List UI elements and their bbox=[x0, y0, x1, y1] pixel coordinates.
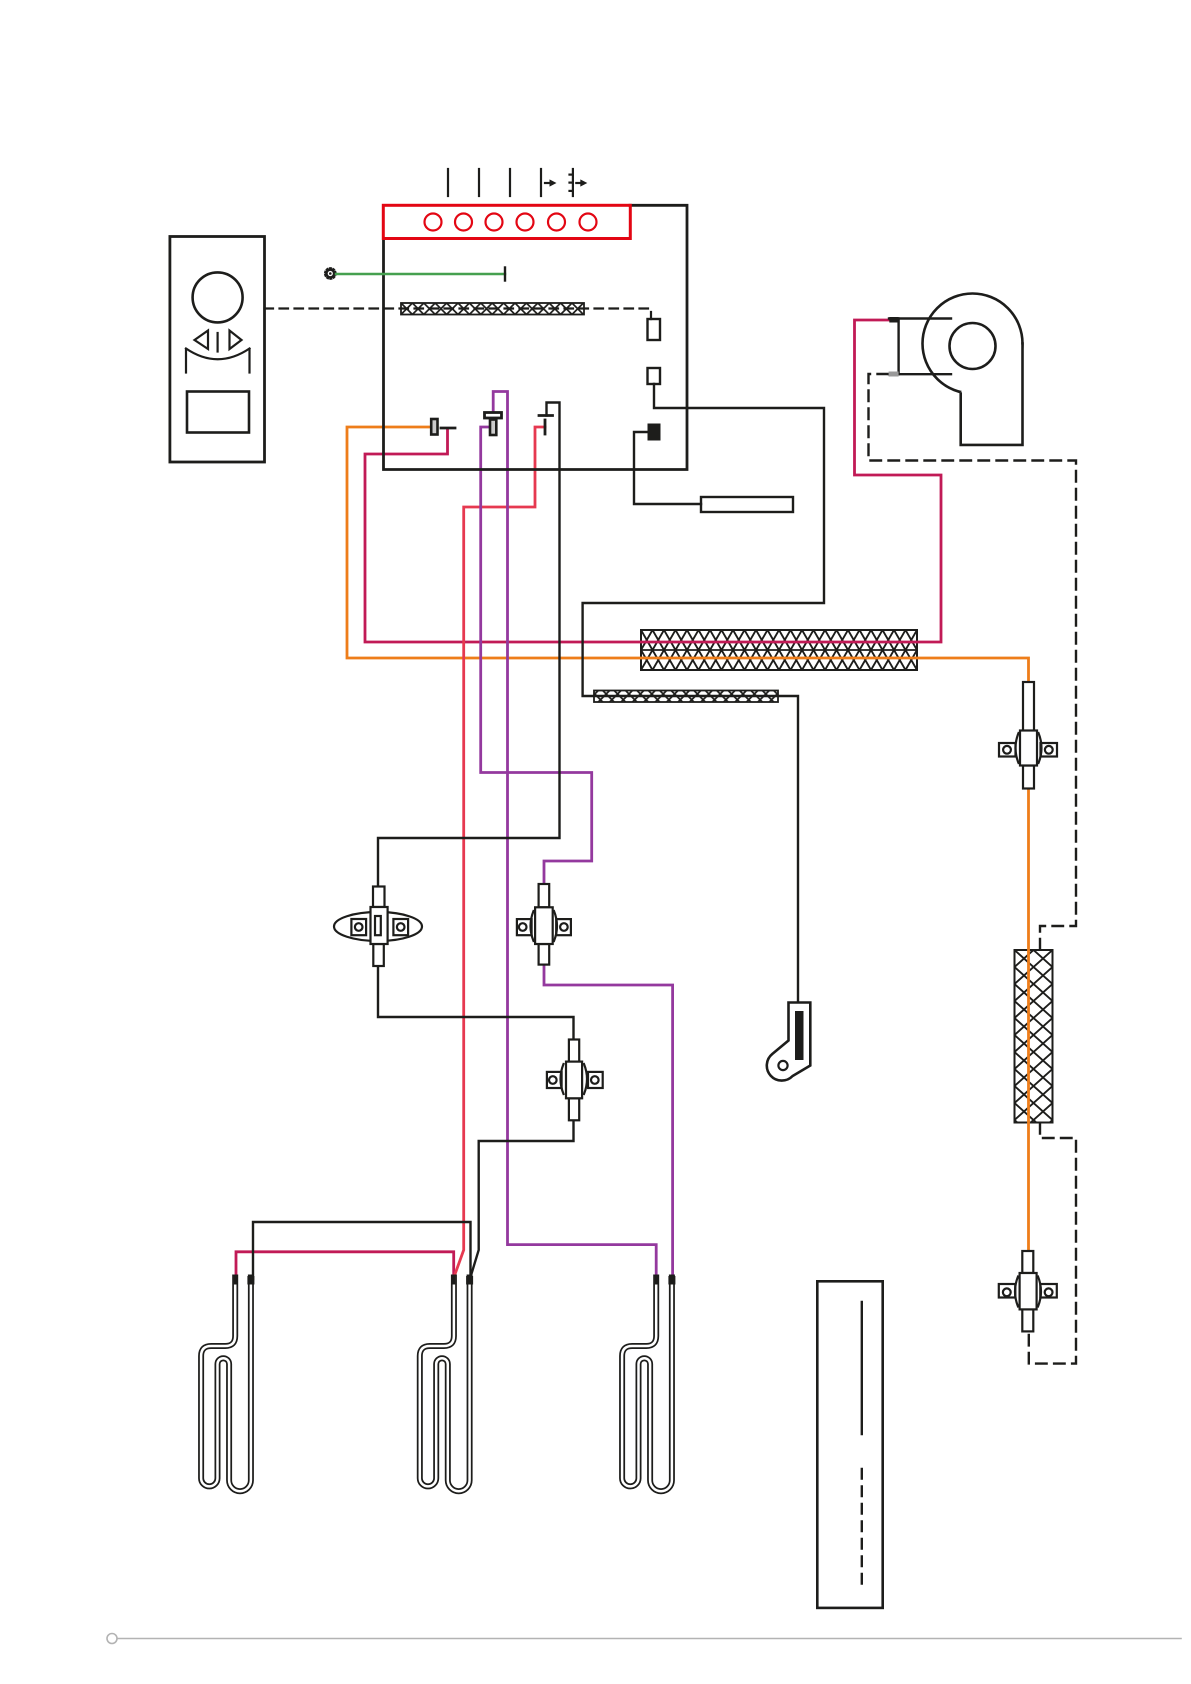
temperature probe sensor bbox=[767, 1003, 810, 1081]
wire purple: thermostat TH2 to element E3 right terminal bbox=[544, 964, 673, 1279]
earth point bbox=[326, 270, 334, 278]
wire purple: switch J2 pin to thermostat TH2 bbox=[481, 427, 592, 886]
wire crimson: switch J1 contact to fan motor bbox=[365, 320, 941, 642]
wire black: junction square to relay K1 bbox=[634, 432, 701, 504]
heating element E1 bbox=[201, 1276, 254, 1492]
braided sleeve S4 (vertical right) bbox=[1015, 950, 1053, 1123]
dashed capillary: fan motor to sleeve S4 bbox=[869, 374, 1077, 950]
green earth wire bbox=[336, 273, 505, 275]
panel button rect bbox=[187, 392, 249, 433]
panel speaker icon bbox=[186, 331, 250, 373]
wire orange: F1 to sleeve S4 to F2 bbox=[1027, 788, 1030, 1252]
thermal fuse F2 (right lower) bbox=[999, 1251, 1057, 1331]
braided sleeve S3 (small horizontal) bbox=[594, 691, 778, 703]
wire orange: switch J1 to thermal fuse F1 and F2 bbox=[347, 427, 1029, 684]
control board outline bbox=[384, 205, 688, 469]
footer line bbox=[117, 1638, 1182, 1640]
wire purple: switch J2 contact bar to element E3 left terminal bbox=[493, 392, 656, 1280]
thermostat TH3 (middle lower) bbox=[547, 1040, 603, 1121]
wire black: thermostat TH1 to thermostat TH3 bbox=[378, 964, 574, 1042]
connector J1 (pin + contact) bbox=[431, 419, 455, 435]
heating element E2 bbox=[420, 1276, 473, 1492]
wire black: switch J3 contact to thermostat TH1 bbox=[378, 403, 560, 889]
thermal fuse F1 (right upper) bbox=[999, 682, 1057, 789]
wire crimson jumper: element E2 left terminal to element E1 left terminal bbox=[236, 1252, 454, 1279]
thermostat TH2 (middle) bbox=[517, 884, 571, 965]
wire black: plug P2 to sensor braid and temperature probe bbox=[583, 384, 824, 1012]
wire black: thermostat TH3 to element E2 right terminal bbox=[471, 1118, 574, 1277]
junction square bbox=[648, 424, 661, 441]
connector J2 (bar + pin) bbox=[485, 413, 502, 436]
thermostat TH1 (left, with oval flange) bbox=[334, 887, 422, 967]
plug P2 bbox=[648, 368, 661, 384]
panel display circle bbox=[193, 272, 243, 322]
wire red: switch J3 to element E2 left terminal bbox=[454, 427, 545, 1277]
terminal block circles bbox=[425, 214, 597, 231]
fan motor M1 bbox=[889, 294, 1023, 445]
terminal block (red) bbox=[383, 205, 630, 238]
dashed link: panel to plug P1 through sleeve S1 bbox=[265, 309, 652, 320]
relay K1 bbox=[701, 497, 793, 512]
capillary housing (tall rect bottom right) bbox=[817, 1281, 882, 1608]
supply connector pins above terminal block bbox=[448, 169, 583, 196]
wire black jumper: element E2 right terminal to element E1 right terminal bbox=[253, 1222, 471, 1279]
braided sleeve S1 (inside board) bbox=[401, 303, 584, 315]
connector J3 (bar + pin) bbox=[539, 416, 553, 435]
dashed capillary: sleeve S4 to thermal fuse F2 bbox=[1029, 1123, 1076, 1364]
programmer panel outline bbox=[170, 237, 265, 463]
plug P1 bbox=[648, 319, 661, 340]
heating element E3 bbox=[622, 1276, 675, 1492]
braided sleeve S2 (large horizontal) bbox=[641, 630, 917, 670]
